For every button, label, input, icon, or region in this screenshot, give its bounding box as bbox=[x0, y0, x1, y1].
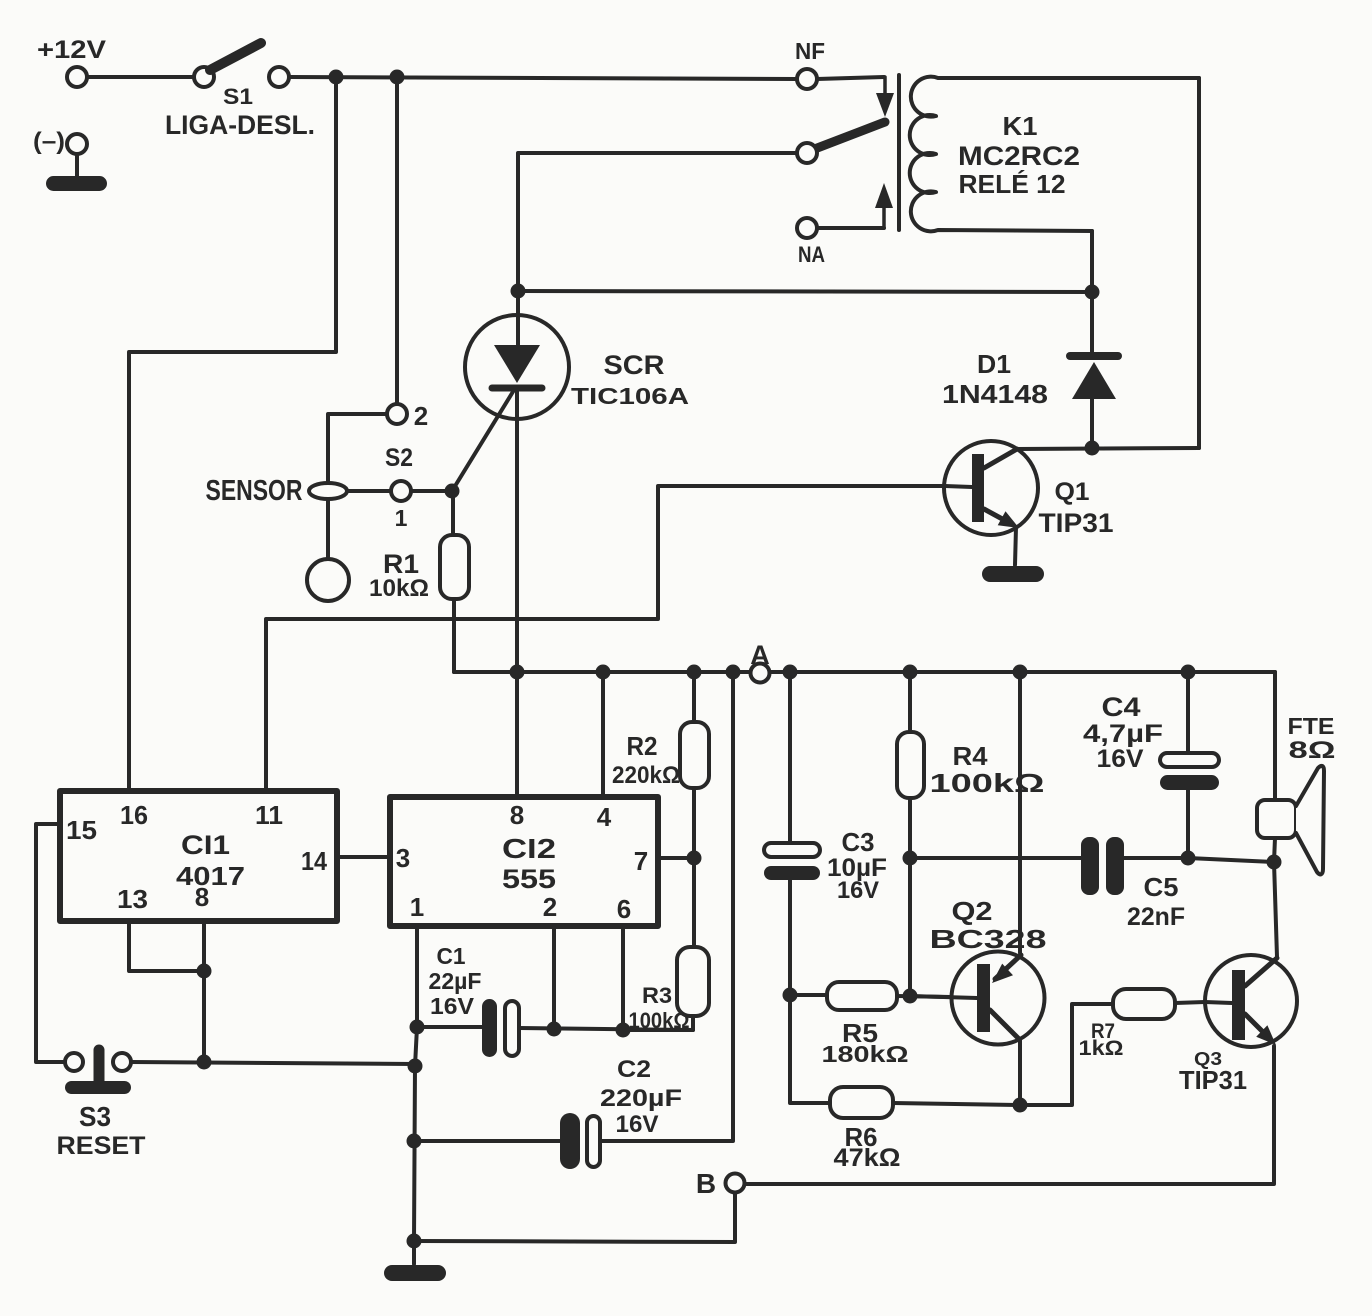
wire CI1 pin15 to S3 bbox=[36, 824, 64, 1062]
svg-text:15: 15 bbox=[66, 815, 97, 845]
resistor R6 bbox=[830, 1087, 893, 1118]
wire C4 node to speaker node bbox=[1188, 858, 1274, 862]
junction ground node bbox=[407, 1234, 422, 1249]
junction A-line C4 bbox=[1181, 665, 1196, 680]
svg-text:MC2RC2: MC2RC2 bbox=[958, 141, 1080, 171]
svg-text:8: 8 bbox=[195, 882, 209, 912]
wire SCR gate bbox=[452, 390, 514, 491]
SCR U-TIC106A bbox=[465, 291, 569, 665]
svg-text:+12V: +12V bbox=[37, 36, 106, 64]
resistor R1 bbox=[440, 535, 469, 599]
wire (-) to ground bbox=[75, 154, 79, 176]
wire top rail S1 to NF bbox=[289, 77, 797, 79]
junction A-line C3 branch bbox=[783, 665, 798, 680]
svg-text:RESET: RESET bbox=[57, 1132, 146, 1160]
wire R6 to Q2 collector node bbox=[893, 1103, 1020, 1105]
wire C1 right to R3 bbox=[519, 1028, 693, 1030]
svg-text:14: 14 bbox=[301, 846, 327, 876]
wire C1 left bbox=[417, 1025, 483, 1029]
svg-text:180kΩ: 180kΩ bbox=[822, 1041, 909, 1067]
junction A-line pin4 bbox=[596, 665, 611, 680]
svg-text:Q2: Q2 bbox=[952, 896, 993, 926]
svg-text:220µF: 220µF bbox=[600, 1085, 682, 1112]
svg-text:C4: C4 bbox=[1102, 692, 1141, 722]
svg-text:R2: R2 bbox=[627, 731, 658, 761]
wire B to Q3 emitter bbox=[745, 1046, 1274, 1184]
transistor Q1 TIP31 bbox=[944, 441, 1038, 565]
svg-text:7: 7 bbox=[634, 846, 648, 876]
junction S3 wire node bbox=[408, 1059, 423, 1074]
wire CI1 pin14 to CI2 pin3 bbox=[337, 855, 390, 859]
junction pin6 node bbox=[616, 1023, 631, 1038]
wire CI2 pin2 down bbox=[552, 926, 556, 1029]
svg-text:10kΩ: 10kΩ bbox=[369, 575, 429, 602]
svg-text:4,7µF: 4,7µF bbox=[1083, 720, 1163, 748]
svg-text:C3: C3 bbox=[842, 827, 875, 857]
svg-text:R4: R4 bbox=[953, 741, 989, 771]
relay K1 contact NF bbox=[797, 69, 817, 89]
relay common contact bbox=[797, 143, 817, 163]
sensor loop circle bbox=[307, 559, 349, 601]
relay K1 core bbox=[897, 75, 901, 230]
wire R5 to Q2 base bbox=[897, 996, 951, 997]
svg-text:TIP31: TIP31 bbox=[1179, 1065, 1247, 1095]
resistor R2 bbox=[680, 672, 709, 858]
relay armature lever bbox=[812, 122, 885, 150]
wire SCR cathode to CI2 pin 8 bbox=[515, 672, 519, 797]
switch S1 LIGA-DESL. bbox=[194, 43, 289, 87]
svg-text:11: 11 bbox=[255, 800, 283, 830]
junction C2 left node bbox=[407, 1134, 422, 1149]
junction gate node bbox=[445, 484, 460, 499]
svg-text:A: A bbox=[750, 640, 770, 670]
svg-text:555: 555 bbox=[502, 864, 556, 894]
svg-text:47kΩ: 47kΩ bbox=[834, 1144, 901, 1172]
relay arrow up bbox=[875, 183, 893, 228]
resistor R4 bbox=[897, 672, 924, 996]
speaker FTE 8ohm bbox=[1257, 766, 1324, 875]
node A line bbox=[454, 670, 1275, 674]
wire NA to arrow bbox=[817, 226, 884, 230]
svg-text:16V: 16V bbox=[837, 877, 879, 904]
wire C2 right up to node A bbox=[600, 672, 733, 1141]
wire contact 2 to sensor loop bbox=[328, 414, 387, 483]
svg-text:C1: C1 bbox=[437, 943, 466, 969]
wire R5 left lead bbox=[790, 993, 827, 997]
svg-text:16V: 16V bbox=[430, 993, 475, 1019]
svg-text:3: 3 bbox=[396, 843, 410, 873]
wire C3 down to R5 node bbox=[788, 880, 792, 995]
svg-text:D1: D1 bbox=[977, 349, 1011, 379]
svg-text:NF: NF bbox=[795, 38, 825, 64]
svg-text:S1: S1 bbox=[223, 84, 253, 109]
resistor R3 bbox=[623, 858, 709, 1030]
wire CI2 pin7 to R2/R3 bbox=[658, 856, 694, 860]
ground main bbox=[384, 1265, 446, 1281]
capacitor C4 bbox=[1160, 672, 1219, 858]
svg-text:CI2: CI2 bbox=[502, 833, 556, 864]
svg-text:(–): (–) bbox=[33, 128, 65, 155]
svg-text:1: 1 bbox=[410, 892, 424, 922]
wire NF to armature pivot bbox=[817, 77, 884, 79]
junction top rail left bbox=[329, 70, 344, 85]
node B terminal bbox=[726, 1174, 745, 1193]
svg-text:220kΩ: 220kΩ bbox=[612, 762, 680, 789]
wire collector node to R7 bbox=[1020, 1004, 1113, 1105]
svg-text:K1: K1 bbox=[1003, 111, 1038, 141]
wire C2 left bbox=[414, 1139, 561, 1143]
node A terminal bbox=[751, 664, 770, 683]
wire R7 to Q3 base bbox=[1175, 1002, 1205, 1003]
wire CI1 pin8 down bbox=[202, 921, 206, 971]
wire C5 right to C4 node bbox=[1124, 856, 1188, 860]
node S2 contact 2 bbox=[387, 404, 407, 424]
wire A-line to C3 bbox=[788, 672, 792, 844]
junction Q1 collector node bbox=[1085, 441, 1100, 456]
svg-text:16V: 16V bbox=[616, 1111, 659, 1138]
svg-text:Q1: Q1 bbox=[1055, 478, 1090, 506]
wire Q1 collector rail bbox=[1017, 448, 1199, 449]
svg-text:2: 2 bbox=[414, 401, 428, 431]
junction D1 cathode node bbox=[1085, 285, 1100, 300]
svg-text:16V: 16V bbox=[1097, 745, 1144, 773]
wire ground chain vertical bbox=[414, 1027, 417, 1241]
relay arrow down bbox=[876, 77, 894, 117]
svg-text:BC328: BC328 bbox=[930, 924, 1047, 954]
wire junction down to S3 wire bbox=[202, 971, 206, 1062]
junction A-line Q2 emitter bbox=[1013, 665, 1028, 680]
svg-text:LIGA-DESL.: LIGA-DESL. bbox=[165, 110, 315, 140]
pushbutton S3 RESET bbox=[65, 1050, 131, 1094]
svg-text:TIC106A: TIC106A bbox=[571, 383, 689, 409]
wire SCR anode node to D1 cathode node bbox=[518, 291, 1092, 292]
wire Q3 collector up to speaker node bbox=[1274, 862, 1277, 957]
wire R1 to node A line bbox=[452, 599, 456, 672]
IC CI2 555 bbox=[390, 797, 658, 926]
relay contact NA bbox=[797, 218, 817, 238]
svg-text:TIP31: TIP31 bbox=[1039, 508, 1114, 538]
wire C3 node down to R6 bbox=[790, 995, 830, 1103]
svg-text:1kΩ: 1kΩ bbox=[1079, 1037, 1124, 1060]
node (-) terminal bbox=[67, 134, 87, 154]
junction pin7 node bbox=[687, 851, 702, 866]
svg-text:8Ω: 8Ω bbox=[1289, 737, 1336, 764]
wire coil bottom to D1 node bbox=[1090, 231, 1094, 292]
ground (-) bbox=[46, 176, 107, 191]
capacitor C3 bbox=[764, 843, 820, 880]
junction A-line C2 branch bbox=[726, 665, 741, 680]
wire CI2 pin1 down bbox=[415, 926, 419, 1027]
capacitor C2 bbox=[560, 1113, 600, 1169]
wire C5 left bbox=[910, 856, 1083, 860]
resistor R5 bbox=[827, 982, 897, 1010]
svg-text:SCR: SCR bbox=[604, 350, 665, 380]
junction A-line R4 bbox=[903, 665, 918, 680]
junction C1 left node bbox=[410, 1020, 425, 1035]
wire speaker to bottom node bbox=[1274, 838, 1275, 862]
wire CI2 pin6 down bbox=[621, 926, 625, 1030]
svg-text:100kΩ: 100kΩ bbox=[629, 1008, 690, 1033]
junction pin2 node bbox=[547, 1022, 562, 1037]
svg-text:1N4148: 1N4148 bbox=[942, 379, 1048, 409]
junction R5 node bbox=[783, 988, 798, 1003]
sensor eyelet bbox=[309, 483, 347, 499]
junction S3 node bbox=[197, 1055, 212, 1070]
svg-text:B: B bbox=[696, 1168, 716, 1199]
capacitor C1 bbox=[482, 999, 519, 1057]
junction speaker bottom node bbox=[1267, 855, 1282, 870]
wire eyelet down bbox=[326, 499, 330, 559]
svg-text:R3: R3 bbox=[642, 983, 672, 1008]
wire +12V to S1 bbox=[87, 75, 194, 79]
junction SCR anode bbox=[511, 284, 526, 299]
wire A-line to CI2 pin 4 bbox=[601, 672, 605, 797]
svg-text:100kΩ: 100kΩ bbox=[930, 768, 1045, 798]
wire top rail to S2 contact 2 bbox=[395, 77, 399, 404]
svg-text:4017: 4017 bbox=[176, 861, 245, 891]
wire CI1 pin11 to Q1 base bbox=[266, 486, 945, 791]
svg-text:S3: S3 bbox=[79, 1101, 111, 1132]
junction A-line SCR cathode bbox=[510, 665, 525, 680]
svg-text:4: 4 bbox=[597, 802, 612, 832]
svg-text:1: 1 bbox=[395, 505, 408, 531]
wire relay common to SCR anode bbox=[518, 153, 797, 284]
svg-text:FTE: FTE bbox=[1288, 713, 1335, 739]
svg-text:C2: C2 bbox=[617, 1056, 651, 1083]
wire ground node to B branch bbox=[414, 1193, 735, 1242]
junction pin8-pin13 bbox=[197, 964, 212, 979]
transistor Q3 TIP31 bbox=[1205, 955, 1297, 1047]
wire to main ground bbox=[412, 1241, 416, 1264]
svg-text:22µF: 22µF bbox=[429, 968, 482, 994]
diode D1 1N4148 bbox=[1070, 292, 1118, 441]
junction R4-C5 node bbox=[903, 851, 918, 866]
svg-text:22nF: 22nF bbox=[1127, 903, 1185, 931]
svg-text:SENSOR: SENSOR bbox=[206, 475, 303, 507]
svg-text:NA: NA bbox=[798, 242, 825, 267]
junction R4 bottom at base bbox=[903, 989, 918, 1004]
junction C4 bottom node bbox=[1181, 851, 1196, 866]
wire A-line to speaker bbox=[1273, 672, 1277, 800]
wire gate node to R1 bbox=[451, 491, 455, 535]
resistor R7 bbox=[1113, 989, 1175, 1019]
svg-text:S2: S2 bbox=[385, 444, 413, 472]
node +12V terminal bbox=[67, 67, 87, 87]
svg-text:8: 8 bbox=[510, 800, 524, 830]
wire S3 to ground chain bbox=[131, 1062, 415, 1064]
transistor Q2 BC328 bbox=[910, 952, 1045, 1106]
wire CI1 pin13 down bbox=[129, 921, 204, 971]
relay K1 coil bbox=[910, 77, 1199, 232]
svg-text:16: 16 bbox=[120, 800, 148, 830]
junction A-line R2 bbox=[687, 665, 702, 680]
wire contact 1 to gate node bbox=[411, 489, 452, 493]
svg-text:6: 6 bbox=[617, 894, 631, 924]
IC CI1 4017 bbox=[60, 791, 337, 921]
junction Q2 collector node bbox=[1013, 1098, 1028, 1113]
ground Q1 emitter bbox=[982, 566, 1044, 582]
wire coil right side down bbox=[1197, 78, 1201, 448]
svg-text:2: 2 bbox=[543, 892, 557, 922]
svg-text:13: 13 bbox=[117, 884, 148, 914]
wire Q2 emitter to A-line bbox=[1018, 672, 1022, 953]
wire eyelet to S2 contact 1 bbox=[347, 489, 391, 493]
svg-text:CI1: CI1 bbox=[181, 830, 230, 860]
svg-text:RELÉ 12: RELÉ 12 bbox=[959, 169, 1066, 199]
node S2 contact 1 bbox=[391, 481, 411, 501]
junction top rail right bbox=[390, 70, 405, 85]
capacitor C5 bbox=[1081, 837, 1124, 895]
wire S1 junction down to CI1 pin 16 bbox=[129, 77, 336, 791]
svg-text:C5: C5 bbox=[1144, 872, 1179, 902]
